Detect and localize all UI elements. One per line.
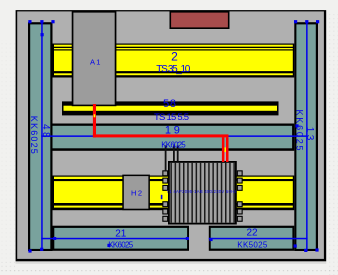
wire black 2 [173,146,175,162]
dimension line middle horizontal 19 [41,135,307,137]
wire red down to transformer a [222,137,225,162]
wire crossing tick yellow 2 [224,147,226,152]
svg-text:13: 13 [304,127,315,141]
grip markers top right duct [294,20,319,127]
grid dots left margin [0,40,16,266]
dimension line bottom-left 21 [41,238,189,240]
wire red down to transformer b [226,137,229,162]
svg-text:22: 22 [246,228,258,239]
svg-text:KK6025: KK6025 [108,241,134,250]
duct KK6025 right vertical [294,22,318,251]
svg-text:48: 48 [40,124,51,138]
grip markers top left duct [28,20,54,36]
wire red from A1 down [93,104,96,137]
wire crossing tick yellow [94,114,96,117]
svg-text:KK6025: KK6025 [29,116,39,154]
grip markers bottom [28,237,318,253]
wire black 3 [177,146,179,162]
component A1 [72,11,117,106]
dimension line left vertical [41,22,43,251]
svg-text:KK6025: KK6025 [161,140,186,149]
svg-text:21: 21 [115,229,127,240]
panel lower shade [16,261,327,264]
duct KK6025 bottom-left horizontal [52,226,189,251]
dimension line right vertical [306,22,308,251]
top red component [170,11,230,29]
wire black 1 to terminal [165,146,167,172]
dimension line bottom-right 22 [209,238,308,240]
duct KK6025 middle horizontal [53,124,295,151]
svg-text:TS 15 5.5: TS 15 5.5 [154,112,189,123]
transformer terminals right [237,170,243,222]
rail TS35 bottom [53,176,295,211]
transformer terminals left [162,170,168,222]
rail TS35 top [53,44,295,78]
rail TS15 middle [62,101,279,115]
component H2 [122,175,150,211]
svg-text:T1 4AP2095-1AB 400/230V 50Hz: T1 4AP2095-1AB 400/230V 50Hz [167,189,237,194]
wire red horizontal in duct [93,134,229,137]
svg-text:KK5025: KK5025 [237,241,268,250]
duct KK6025 left vertical [28,22,53,251]
grid dots bottom margin [0,268,338,273]
svg-text:58: 58 [163,98,176,110]
svg-text:2: 2 [171,50,178,64]
duct KK5025 bottom-right horizontal [209,226,294,251]
transformer T1 body [168,161,237,225]
transformer pin mark [161,195,163,199]
grid dots right margin [327,14,338,275]
svg-text:TS 35_10: TS 35_10 [156,64,190,75]
